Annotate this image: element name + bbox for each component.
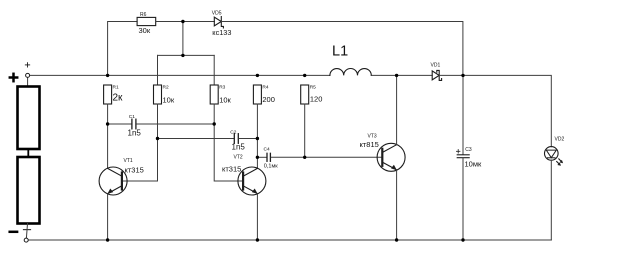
svg-text:кс133: кс133	[212, 28, 231, 37]
resistor R1	[104, 85, 112, 104]
inductor L1	[330, 69, 371, 76]
svg-text:0,1мк: 0,1мк	[264, 164, 278, 170]
terminal - (bottom)	[24, 238, 28, 242]
junction node dots	[106, 20, 465, 242]
resistor R4	[253, 85, 261, 104]
battery big + symbol	[10, 74, 17, 81]
svg-text:R2: R2	[163, 85, 169, 91]
wire LED to ground rail	[550, 160, 552, 240]
node ground VT1	[106, 238, 109, 241]
node zener bridge	[181, 54, 184, 57]
svg-text:VD2: VD2	[555, 136, 565, 142]
wire top rail left vertical (R1 column to top wire)	[108, 22, 138, 76]
svg-text:R6: R6	[140, 12, 147, 18]
transistor VT3 кт815	[377, 143, 405, 171]
svg-text:VT1: VT1	[124, 158, 133, 164]
resistor R3	[210, 85, 218, 104]
svg-text:10к: 10к	[219, 96, 231, 105]
wire R1 bottom column to VT1 collector	[107, 104, 109, 168]
node top wire / zener column	[181, 20, 184, 23]
wire main + rail left segment	[30, 74, 330, 76]
node C1 right	[213, 122, 216, 125]
battery big - symbol	[10, 231, 17, 234]
battery wire cell to - terminal	[26, 224, 27, 239]
battery cell 1	[18, 87, 40, 150]
wire R5 node to VT3 base	[305, 156, 383, 158]
terminal + (top)	[26, 73, 30, 77]
svg-text:1n5: 1n5	[128, 128, 142, 137]
wire ground rail	[28, 239, 551, 241]
battery polarity small +	[25, 63, 29, 67]
node rail R4	[256, 74, 259, 77]
wire C2 coupling	[158, 138, 234, 140]
battery minus plate tick	[24, 229, 31, 231]
capacitor C4	[267, 153, 270, 161]
svg-text:120: 120	[310, 95, 323, 104]
wire R3 bottom column to VT2 base	[214, 104, 242, 181]
battery inter-cell link	[27, 149, 29, 157]
wire C3 column top	[462, 75, 464, 154]
svg-text:R4: R4	[262, 85, 268, 91]
node ground VT2	[256, 238, 259, 241]
LED VD2	[545, 147, 559, 161]
battery wire + terminal to cell	[27, 78, 29, 87]
wire C1 to R3 column	[137, 123, 215, 125]
wire top rail R6 to VD5	[156, 21, 215, 23]
svg-text:2к: 2к	[113, 93, 124, 104]
svg-text:кт315: кт315	[125, 165, 144, 174]
wire zener node bridge horizontal	[158, 54, 215, 56]
LED VD2 emission arrows	[557, 159, 563, 166]
svg-text:C3: C3	[465, 147, 472, 153]
node C4 right / R5	[303, 156, 306, 159]
svg-text:10мк: 10мк	[465, 160, 482, 169]
node rail R1	[106, 74, 109, 77]
svg-text:200: 200	[262, 95, 275, 104]
svg-text:C1: C1	[129, 114, 135, 120]
svg-text:1n5: 1n5	[232, 143, 246, 152]
svg-text:C2: C2	[230, 130, 236, 136]
node C1 left	[106, 122, 109, 125]
svg-text:VT2: VT2	[234, 155, 243, 161]
svg-text:кт815: кт815	[360, 140, 379, 149]
svg-text:10к: 10к	[163, 96, 175, 105]
node C2 left	[156, 137, 159, 140]
wire R4 bottom column to VT2 collector	[256, 104, 258, 168]
wire R2 bottom column to VT1 base	[123, 104, 158, 181]
capacitor C2	[234, 134, 238, 144]
svg-text:C4: C4	[264, 147, 270, 153]
svg-text:R1: R1	[113, 85, 119, 91]
wire VT1 emitter to ground rail	[107, 194, 109, 240]
wire main rail L1 to VD1	[371, 74, 432, 76]
resistor R6	[137, 17, 156, 25]
svg-text:R5: R5	[310, 85, 316, 91]
battery cell 2	[18, 157, 40, 224]
zener diode VD5 кс133	[214, 17, 223, 28]
wire C1 coupling	[108, 123, 132, 125]
node C2 right	[256, 137, 259, 140]
node rail C3 column	[461, 74, 464, 77]
schottky diode VD1	[432, 70, 441, 80]
wire R2 feed column	[157, 55, 159, 85]
wire C4 to R5 column	[271, 156, 305, 158]
wire C2 to VT2 collector column	[239, 138, 257, 140]
wire VT3 emitter to ground rail	[396, 170, 398, 240]
capacitor C3 electrolytic	[457, 155, 469, 158]
svg-text:L1: L1	[332, 44, 348, 60]
wire top rail VD5 to right corner, down to main rail	[221, 22, 463, 76]
wire VT3 collector column to rail	[396, 75, 398, 144]
svg-text:VD1: VD1	[431, 63, 441, 69]
wire R5 bottom column	[304, 104, 306, 157]
capacitor C1	[132, 119, 136, 129]
wire zener node column down from top wire	[182, 22, 184, 56]
node rail VT3 collector	[395, 74, 398, 77]
C3 polarity +	[456, 150, 460, 154]
transistor VT1 кт315	[99, 167, 127, 195]
wire C3 column bottom	[462, 158, 464, 240]
svg-text:кт315: кт315	[222, 165, 241, 174]
transistor VT2 кт315	[238, 167, 266, 195]
svg-text:30к: 30к	[139, 26, 151, 35]
resistor R5	[301, 85, 309, 104]
node ground C3	[461, 238, 464, 241]
wire VT2 emitter to ground rail	[256, 194, 258, 240]
resistor R2	[154, 85, 162, 104]
wire main rail VD1 to right corner	[439, 75, 551, 146]
svg-text:VT3: VT3	[368, 134, 377, 140]
svg-text:R3: R3	[219, 85, 225, 91]
wire C4 branch from VT2 collector	[257, 156, 266, 158]
svg-text:VD5: VD5	[212, 11, 222, 17]
node C4 left	[256, 156, 259, 159]
wire R3 feed column	[213, 55, 215, 85]
node rail R5	[303, 74, 306, 77]
node ground VT3	[395, 238, 398, 241]
